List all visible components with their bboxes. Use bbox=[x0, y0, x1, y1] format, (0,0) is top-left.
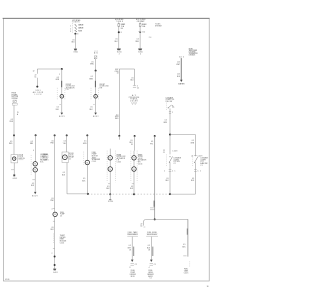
svg-text:C1: C1 bbox=[34, 76, 36, 78]
svg-text:WHT: WHT bbox=[176, 64, 180, 66]
wire SW3 to bus bbox=[169, 162, 171, 194]
svg-text:C1: C1 bbox=[172, 107, 174, 109]
svg-text:0.5: 0.5 bbox=[90, 107, 92, 109]
svg-text:MOTOR: MOTOR bbox=[92, 156, 99, 158]
wire label 0.5 GRN SW2 bbox=[163, 120, 167, 124]
wire tank unit feed bbox=[154, 136, 156, 219]
ground G401 symbol bbox=[53, 269, 58, 275]
connector ticks FLS bbox=[149, 263, 156, 269]
svg-text:C1: C1 bbox=[154, 264, 156, 266]
wire label FPDM bbox=[127, 245, 131, 251]
wire label 0.5 BLK W54 bbox=[51, 227, 55, 231]
svg-text:C405: C405 bbox=[184, 272, 189, 274]
in-line connector symbol left column bbox=[13, 100, 16, 102]
node junction dot bus right bbox=[169, 193, 171, 195]
svg-text:24: 24 bbox=[149, 37, 152, 39]
svg-text:4: 4 bbox=[149, 267, 150, 269]
component dashed boundary release switch bbox=[165, 103, 167, 111]
svg-text:G401: G401 bbox=[53, 272, 58, 274]
svg-text:42-30: 42-30 bbox=[5, 279, 9, 281]
svg-text:G302: G302 bbox=[13, 178, 18, 180]
wire label 0.5 BRN bbox=[90, 61, 94, 65]
svg-text:FRONT: FRONT bbox=[100, 84, 105, 86]
svg-text:BODY: BODY bbox=[59, 116, 66, 118]
wire branch to right bbox=[170, 134, 195, 136]
svg-text:2: 2 bbox=[52, 253, 53, 255]
component name door lock relay bbox=[69, 153, 75, 160]
svg-text:12: 12 bbox=[33, 71, 35, 73]
node splice dot P1 feed bbox=[86, 134, 88, 136]
ground G400 symbol bbox=[138, 49, 143, 56]
node splice dot M2 bbox=[95, 70, 97, 72]
in-line connector name fuel tank press sensor bbox=[127, 231, 138, 236]
svg-text:DOOR LOCK: DOOR LOCK bbox=[117, 156, 127, 158]
connector tick tank bus stub bbox=[144, 226, 146, 228]
wire M2 feed bbox=[95, 59, 97, 71]
component dashed boundary LH bbox=[107, 151, 116, 183]
svg-text:0.5: 0.5 bbox=[131, 77, 133, 79]
wire solenoid down bbox=[34, 172, 36, 192]
connector tick RH bbox=[132, 183, 134, 185]
motor M1 wire upper bbox=[61, 69, 63, 94]
component name fuel pump driver module bbox=[130, 270, 137, 278]
door lock switch SW1 bbox=[11, 155, 18, 163]
svg-text:G301: G301 bbox=[73, 52, 78, 54]
relay K1 bbox=[62, 152, 68, 163]
svg-text:COMPT: COMPT bbox=[200, 159, 206, 161]
wire gauge bar FLS bbox=[151, 247, 154, 256]
component name front door lock actuator LH bbox=[66, 84, 76, 91]
node splice dot F1 output bbox=[74, 33, 78, 36]
wire label 0.5 TAN bbox=[30, 141, 34, 145]
svg-text:0.5: 0.5 bbox=[166, 178, 168, 180]
component dashed boundary ajar switch bbox=[192, 157, 194, 167]
svg-text:2: 2 bbox=[119, 53, 120, 55]
connector tick W54 bbox=[52, 208, 55, 210]
svg-text:2: 2 bbox=[59, 74, 60, 76]
wire gauge bar FPDM bbox=[132, 247, 135, 256]
svg-text:1.25: 1.25 bbox=[177, 62, 180, 64]
wire label 0.5 RED lower bbox=[9, 141, 13, 145]
wire color bar M2 bbox=[95, 81, 96, 87]
wire label 0.5 PPL bbox=[150, 141, 153, 145]
svg-text:22: 22 bbox=[163, 150, 165, 152]
ground G200 symbol bbox=[117, 49, 122, 56]
motor M2 bbox=[94, 95, 98, 99]
svg-text:PRESSURE: PRESSURE bbox=[129, 97, 139, 99]
wire T2 bbox=[139, 22, 141, 48]
svg-text:22: 22 bbox=[95, 51, 98, 53]
svg-text:SYSTEM: SYSTEM bbox=[155, 26, 162, 28]
pin numbers bbox=[70, 25, 71, 33]
svg-text:4: 4 bbox=[33, 150, 34, 152]
component name fuel pump C3 bbox=[60, 212, 65, 218]
svg-text:PPL: PPL bbox=[150, 143, 153, 145]
continuation arrow M1 bbox=[59, 113, 66, 119]
wire below sender bbox=[54, 217, 56, 269]
svg-text:PUMP: PUMP bbox=[60, 214, 65, 216]
svg-text:YEL: YEL bbox=[63, 143, 66, 145]
wire label 0.5 BLK solenoid bbox=[31, 183, 35, 187]
svg-text:FUSE 14: FUSE 14 bbox=[142, 24, 147, 26]
in-line connector name fuel level sensor bbox=[146, 232, 158, 236]
svg-text:G400: G400 bbox=[138, 51, 143, 53]
wire label 0.5 BLK SW4 bbox=[191, 178, 195, 182]
svg-text:18: 18 bbox=[148, 250, 150, 252]
svg-text:SENSOR: SENSOR bbox=[147, 274, 154, 276]
svg-text:0.5: 0.5 bbox=[51, 141, 53, 143]
component name fuel pump motor bbox=[92, 152, 101, 163]
connector tick solenoid bbox=[32, 179, 35, 181]
svg-text:TIMES: TIMES bbox=[72, 21, 80, 23]
svg-text:0.5: 0.5 bbox=[183, 244, 185, 246]
node splice dot row: S310 bbox=[134, 135, 136, 137]
svg-text:SYSTEM: SYSTEM bbox=[12, 98, 19, 100]
svg-text:C1: C1 bbox=[163, 152, 165, 154]
arrow into connector FLS bbox=[150, 260, 153, 262]
wire label 0.5 BLK SW3 bbox=[166, 178, 170, 182]
border frame bbox=[3, 18, 210, 281]
svg-text:PRESS SENSOR: PRESS SENSOR bbox=[127, 234, 138, 236]
wire rel feed bbox=[35, 135, 37, 161]
wire label 1.25 BLK bbox=[177, 74, 181, 78]
component dashed boundary M2 bbox=[91, 88, 99, 100]
component name rear door lock actuator RH bbox=[138, 153, 147, 165]
svg-text:B6: B6 bbox=[121, 28, 124, 30]
component name door lock switch bbox=[18, 154, 25, 160]
node dot on bus LH bbox=[109, 193, 111, 195]
svg-text:REL SW: REL SW bbox=[166, 101, 173, 103]
svg-text:2: 2 bbox=[164, 170, 165, 172]
node splice dot C13 bbox=[118, 135, 120, 140]
connector ticks SW2 bbox=[169, 112, 173, 115]
motor M3 lower bbox=[108, 167, 112, 171]
svg-text:SOL: SOL bbox=[40, 161, 44, 163]
svg-text:14: 14 bbox=[117, 73, 119, 75]
svg-text:C1: C1 bbox=[150, 278, 152, 280]
component dashed boundary M1 bbox=[57, 88, 65, 100]
svg-text:FUEL: FUEL bbox=[184, 269, 188, 271]
switch SW4 ajar bbox=[194, 157, 198, 163]
wire P1 to bus bbox=[86, 165, 88, 194]
wire label 0.5 BLK LH bbox=[106, 186, 110, 190]
splice leg S404 bbox=[108, 194, 113, 203]
svg-text:0.5: 0.5 bbox=[63, 172, 65, 174]
ground bus solid segment bbox=[67, 193, 88, 195]
connector tick 248 bbox=[52, 248, 55, 254]
svg-text:C2: C2 bbox=[135, 264, 137, 266]
component dashed boundary P1 bbox=[83, 152, 85, 165]
wire label 0.5 PNK bbox=[50, 141, 54, 145]
svg-text:LID SW: LID SW bbox=[174, 161, 181, 163]
wire label 0.5 BRN 2 bbox=[89, 76, 93, 80]
svg-text:0.5: 0.5 bbox=[31, 141, 33, 143]
ground G301 symbol bbox=[73, 49, 78, 54]
wire center bus left drop bbox=[118, 69, 120, 136]
wire label 1.25 WHT bbox=[176, 62, 180, 66]
svg-text:8: 8 bbox=[121, 32, 122, 34]
wire label 0.5 RED T2 bbox=[136, 39, 140, 43]
connector tick LH bbox=[108, 183, 110, 185]
wire center bus right drop bbox=[134, 69, 136, 85]
wire SW4 to bus bbox=[194, 162, 196, 194]
svg-text:0.5: 0.5 bbox=[130, 140, 132, 142]
node junction dot R1 bbox=[169, 134, 171, 136]
svg-text:DRIVER: DRIVER bbox=[130, 274, 137, 276]
power source text block left bbox=[12, 92, 19, 100]
svg-text:G200: G200 bbox=[117, 51, 122, 53]
svg-text:4 C2: 4 C2 bbox=[142, 31, 146, 33]
solenoid coil upper bbox=[33, 162, 37, 166]
svg-text:0.5: 0.5 bbox=[192, 178, 194, 180]
motor fuel pump P1 bbox=[85, 160, 89, 164]
switch SW3 lid switch bbox=[169, 156, 173, 163]
svg-text:8: 8 bbox=[77, 34, 78, 36]
svg-text:C408: C408 bbox=[172, 151, 177, 153]
svg-text:DETER-: DETER- bbox=[60, 237, 66, 239]
wire actuator LH bbox=[109, 149, 111, 195]
svg-text:2: 2 bbox=[70, 28, 71, 30]
svg-text:0.5: 0.5 bbox=[10, 141, 12, 143]
ground bus dashed segment bbox=[88, 193, 169, 195]
wire fuel tank bbox=[187, 219, 189, 256]
component dashed boundary theft module bbox=[53, 234, 55, 244]
svg-text:W/ SENDER: W/ SENDER bbox=[92, 159, 101, 161]
wire ajar switch feed bbox=[194, 135, 196, 157]
svg-text:C1: C1 bbox=[172, 170, 176, 172]
wire label 0.5 BLK P1 bbox=[82, 178, 86, 182]
wire K1 to bus bbox=[66, 163, 68, 194]
luggage compt lid release switch block bbox=[166, 96, 175, 103]
wire F1 down bbox=[74, 34, 76, 49]
svg-text:0.5: 0.5 bbox=[51, 227, 53, 229]
node splice dot S406 bbox=[54, 256, 56, 258]
wire label FLS bbox=[147, 245, 151, 251]
svg-text:0.5: 0.5 bbox=[137, 39, 139, 41]
connector label C200 bbox=[115, 69, 120, 75]
connector tick fuel tank bbox=[183, 255, 186, 257]
svg-text:C2: C2 bbox=[197, 170, 201, 172]
motor M2 wire lower bbox=[95, 98, 97, 113]
svg-text:0.5: 0.5 bbox=[115, 39, 117, 41]
wire label 0.5 BLU bbox=[130, 77, 134, 81]
node splice dot W54 bbox=[54, 134, 56, 136]
center bus wire bbox=[119, 68, 134, 70]
svg-text:0.5: 0.5 bbox=[84, 141, 86, 143]
svg-text:0.5: 0.5 bbox=[129, 245, 131, 247]
svg-text:0.5: 0.5 bbox=[192, 140, 194, 142]
wire actuator RH bbox=[133, 151, 135, 195]
ground bus right solid segment bbox=[170, 193, 195, 195]
svg-text:C3: C3 bbox=[60, 215, 62, 217]
svg-text:MODULE: MODULE bbox=[60, 241, 66, 243]
connector ticks C402 bbox=[150, 208, 155, 210]
wire color bar M1 bbox=[61, 81, 62, 87]
component name luggage compt lid ajar switch bbox=[200, 157, 207, 167]
wire left column bbox=[13, 105, 15, 135]
svg-text:0.5: 0.5 bbox=[165, 120, 167, 122]
svg-text:2: 2 bbox=[172, 112, 173, 114]
wire label 0.5 BLK K1 bbox=[62, 172, 66, 176]
svg-text:1.25: 1.25 bbox=[177, 74, 180, 76]
wire K1 feed bbox=[66, 135, 68, 152]
fuse block detail F1 header bbox=[72, 19, 81, 24]
svg-text:C2: C2 bbox=[137, 87, 139, 89]
connector tick 221 bbox=[53, 220, 55, 222]
node dot T2 bbox=[139, 31, 141, 33]
svg-text:0.5: 0.5 bbox=[32, 183, 34, 185]
note label right of T2 bbox=[155, 23, 162, 28]
svg-text:1: 1 bbox=[70, 25, 71, 27]
svg-text:DUCER: DUCER bbox=[130, 101, 138, 103]
fuse box dashed boundary bbox=[72, 23, 74, 33]
svg-text:PUMP: PUMP bbox=[92, 154, 97, 156]
svg-text:22: 22 bbox=[35, 74, 37, 76]
component name fuel tank bbox=[184, 269, 189, 275]
svg-text:RENT: RENT bbox=[60, 239, 64, 241]
motor M1 wire lower bbox=[61, 98, 63, 113]
svg-text:TIMES: TIMES bbox=[116, 21, 123, 23]
svg-text:POWER: POWER bbox=[12, 94, 19, 96]
node splice dot S311 bbox=[154, 135, 156, 137]
fuel pump sender unit bbox=[53, 212, 57, 216]
svg-text:FRONT: FRONT bbox=[66, 84, 71, 86]
svg-text:22: 22 bbox=[141, 223, 143, 225]
svg-text:FUEL: FUEL bbox=[92, 152, 96, 154]
svg-text:0.5: 0.5 bbox=[51, 198, 53, 200]
wire label fuel tank bbox=[182, 244, 186, 248]
svg-text:FUEL: FUEL bbox=[131, 270, 135, 272]
node splice S201 bbox=[33, 86, 44, 96]
wire T1 bbox=[118, 22, 120, 48]
wire label 0.5 BLK T1 bbox=[115, 39, 119, 43]
fuse F2 bbox=[118, 24, 125, 30]
fuse F6 bbox=[139, 24, 146, 28]
wire T3 battery feed bbox=[180, 58, 182, 80]
component dashed boundary solenoid bbox=[30, 155, 32, 175]
node dot on bus RH bbox=[133, 193, 135, 195]
motor M4 upper bbox=[132, 156, 136, 160]
svg-text:2: 2 bbox=[137, 85, 138, 87]
svg-text:DISTRIB: DISTRIB bbox=[12, 96, 18, 98]
connector label tank bus stub bbox=[140, 223, 142, 227]
svg-text:COMPT: COMPT bbox=[40, 156, 46, 158]
svg-text:18: 18 bbox=[131, 144, 133, 146]
svg-text:FUEL: FUEL bbox=[149, 270, 153, 272]
wire label lower run bbox=[50, 198, 54, 202]
wire label 0.5 GRN RED bbox=[115, 114, 119, 120]
connector ticks below SW3 bbox=[164, 169, 176, 172]
svg-text:S201: S201 bbox=[36, 90, 41, 92]
svg-text:0.5: 0.5 bbox=[116, 114, 118, 116]
motor M1 bbox=[60, 95, 64, 99]
wire W54 long run bbox=[54, 135, 56, 212]
svg-text:C4: C4 bbox=[140, 226, 142, 228]
svg-text:18: 18 bbox=[129, 250, 131, 252]
solenoid coil lower bbox=[33, 168, 37, 172]
svg-text:0.5: 0.5 bbox=[83, 178, 85, 180]
svg-text:DOOR LOCK: DOOR LOCK bbox=[100, 86, 110, 88]
wire left bus drop bbox=[36, 69, 38, 74]
wire label 0.5 BLK M1 bbox=[56, 105, 61, 111]
wire rear actuator RH feed bbox=[134, 136, 136, 151]
in-line connector symbol M2 top bbox=[94, 56, 97, 59]
connector tick T2 bbox=[138, 31, 145, 33]
connector tick C409 bbox=[191, 155, 202, 157]
svg-text:C204: C204 bbox=[60, 243, 65, 245]
svg-text:C2: C2 bbox=[69, 158, 71, 160]
fusible link symbol bbox=[12, 103, 17, 105]
fuse F11 bbox=[75, 27, 84, 30]
svg-text:C101: C101 bbox=[131, 102, 137, 104]
svg-text:LOCK: LOCK bbox=[35, 94, 43, 96]
wire SW2 down bbox=[169, 109, 171, 155]
svg-text:8: 8 bbox=[130, 267, 131, 269]
wire label mid run bbox=[42, 154, 49, 162]
component dashed boundary RH bbox=[131, 151, 137, 183]
svg-text:C409: C409 bbox=[198, 155, 203, 157]
tank bus wire bbox=[144, 219, 188, 225]
motor M3 upper bbox=[108, 156, 112, 160]
svg-text:0.5: 0.5 bbox=[107, 186, 109, 188]
wire FPDM bbox=[131, 237, 133, 260]
connector tick SW1 bbox=[11, 169, 14, 171]
svg-text:12: 12 bbox=[132, 104, 136, 106]
svg-text:4: 4 bbox=[52, 208, 53, 210]
wire label 0.5 GRN ajar bbox=[190, 140, 194, 144]
wire P1 feed bbox=[86, 135, 88, 160]
svg-text:S404: S404 bbox=[108, 201, 113, 203]
svg-text:C305: C305 bbox=[117, 162, 122, 164]
wire to splice bbox=[36, 78, 38, 87]
svg-text:C1: C1 bbox=[200, 165, 202, 167]
component name front door lock actuator RH bbox=[100, 84, 110, 90]
wire left column lower bbox=[13, 135, 15, 154]
wire label 0.5 RED left bbox=[10, 119, 14, 123]
continuation arrow solenoid bbox=[32, 192, 39, 198]
motor M4 lower bbox=[132, 167, 136, 171]
svg-text:BODY: BODY bbox=[93, 116, 100, 118]
wire label 0.5 BLK bbox=[72, 40, 76, 44]
ground G302 stud bbox=[13, 174, 18, 180]
wire label 0.5 YEL bbox=[63, 141, 66, 145]
svg-text:FROM: FROM bbox=[12, 92, 17, 94]
wire label 0.5 BLK RH bbox=[130, 186, 134, 190]
svg-text:0.5: 0.5 bbox=[91, 61, 93, 63]
component dashed boundary fuel tank bbox=[189, 261, 191, 267]
svg-text:0.5: 0.5 bbox=[131, 186, 133, 188]
component name theft deterrent module bbox=[60, 235, 66, 245]
arrow into connector FPDM bbox=[131, 260, 134, 262]
svg-text:PUMP: PUMP bbox=[131, 272, 136, 274]
svg-text:BODY: BODY bbox=[32, 196, 39, 198]
continuation arrow M2 bbox=[93, 113, 100, 119]
power feed T1 header bbox=[115, 18, 124, 23]
note block T3 bbox=[189, 48, 199, 56]
terminal label 15 A bbox=[17, 112, 19, 116]
svg-text:C2: C2 bbox=[174, 163, 176, 165]
wire label 0.5 GRN M1 bbox=[55, 77, 59, 81]
wire label 0.5 GRN P1 bbox=[83, 141, 87, 145]
svg-text:15: 15 bbox=[17, 112, 19, 114]
component name fuel level sensor assy bbox=[147, 270, 154, 280]
svg-text:4: 4 bbox=[140, 53, 141, 55]
node junction dot tank bus bbox=[154, 218, 156, 220]
wire M2 down bbox=[95, 71, 97, 95]
svg-text:C102: C102 bbox=[92, 161, 97, 163]
component name luggage compt lid switch bbox=[174, 157, 181, 165]
wire label 0.5 BLU RH bbox=[129, 140, 133, 146]
